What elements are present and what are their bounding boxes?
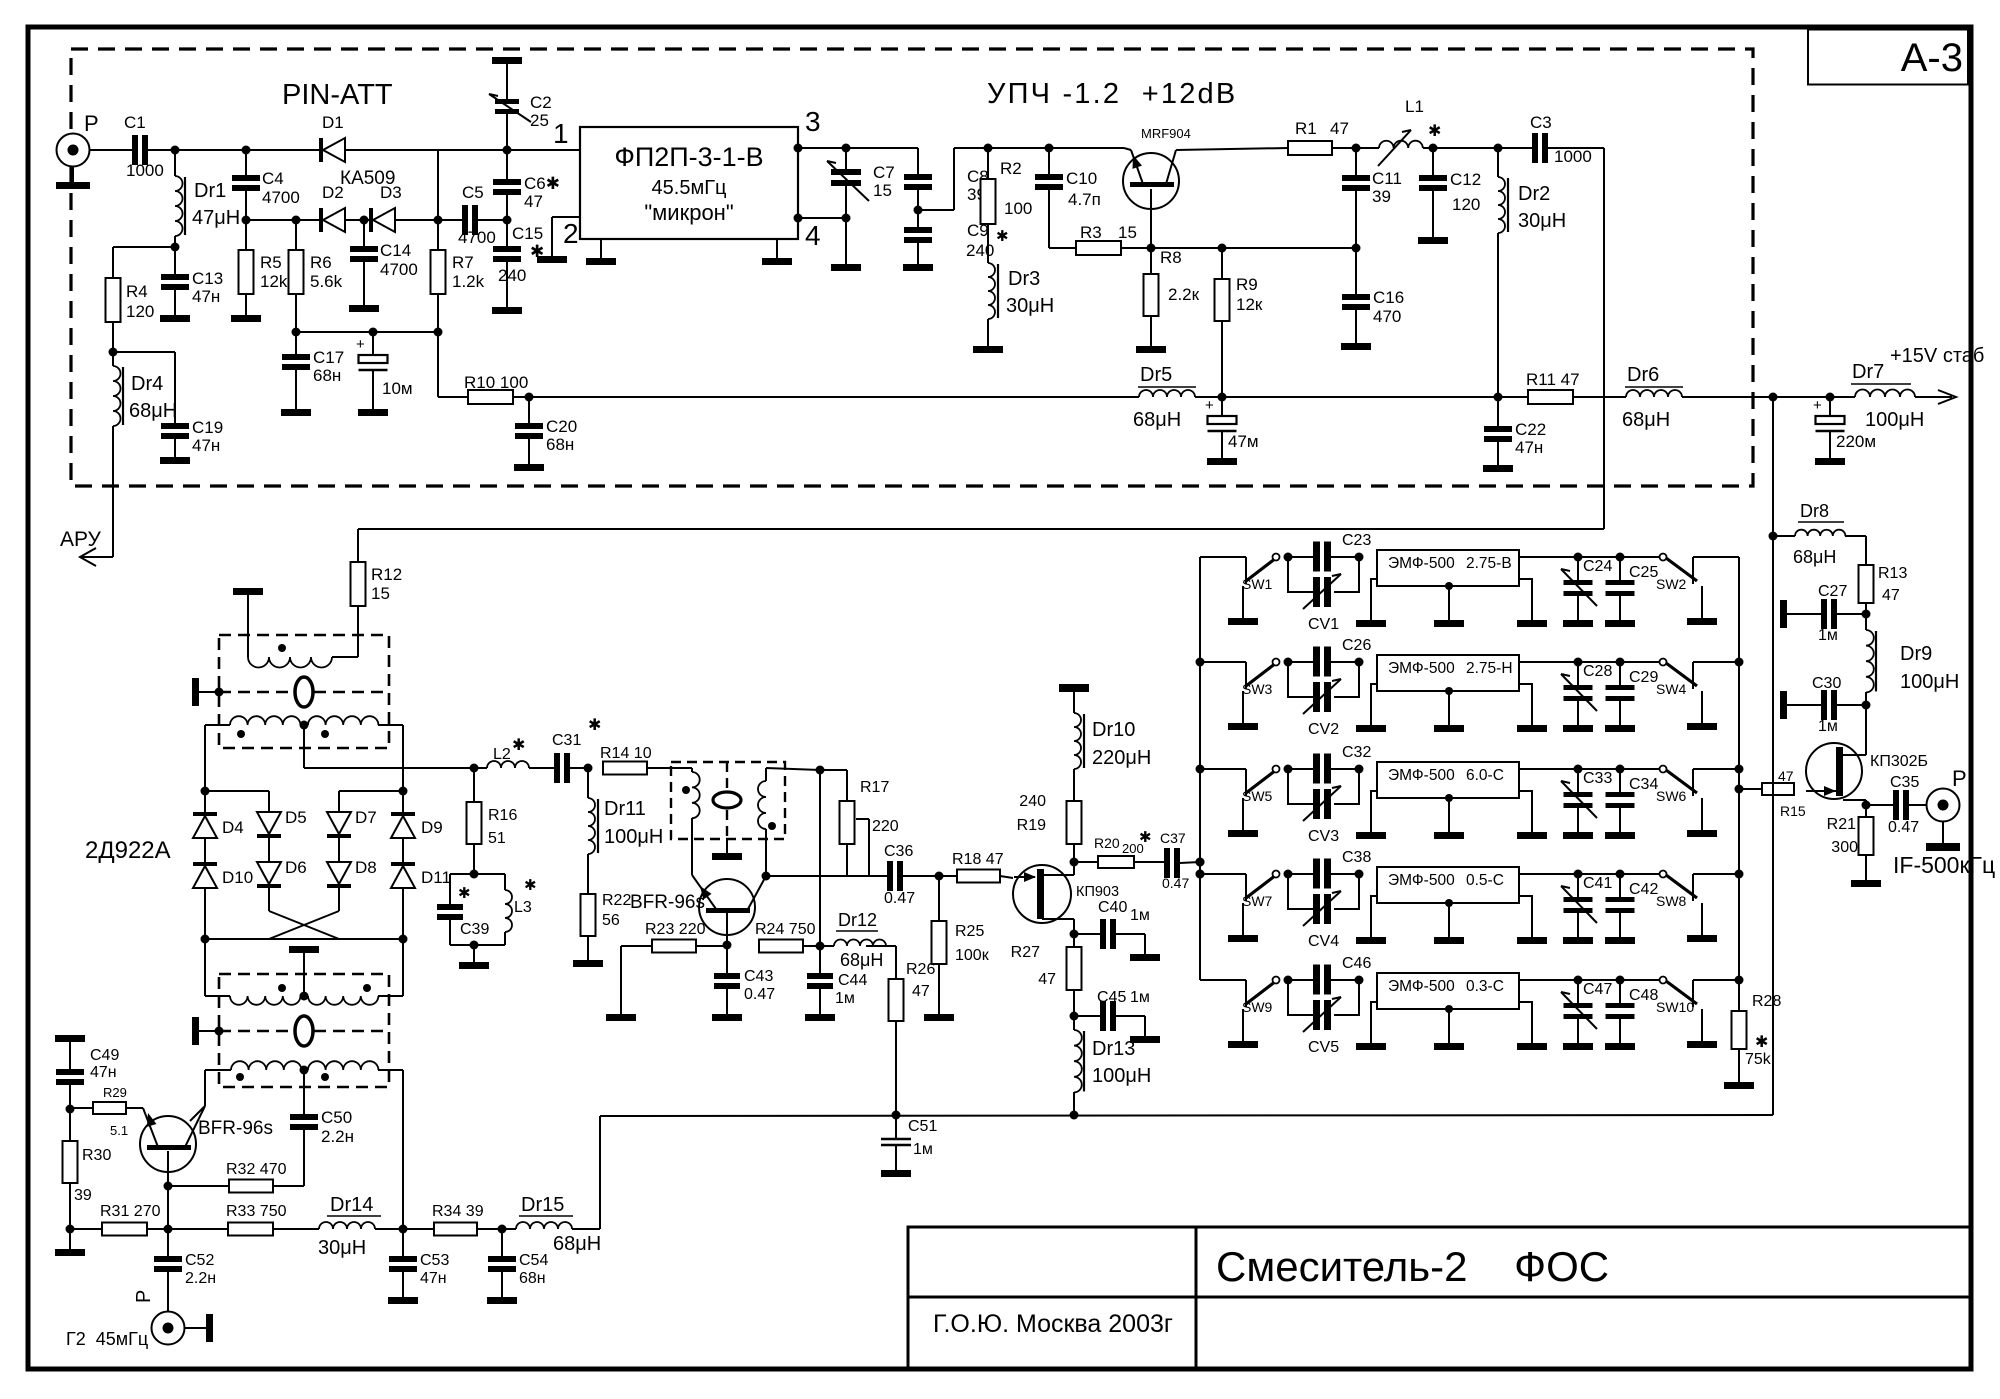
svg-text:68μH: 68μH [129,400,177,422]
svg-text:C43: C43 [744,968,773,985]
node [1284,870,1293,879]
svg-text:✱: ✱ [996,228,1009,245]
capacitor 10м electrolytic [372,332,374,355]
node [1494,144,1503,153]
choke Dr1 [174,150,176,176]
svg-text:C32: C32 [1342,744,1371,761]
svg-text:Dr5: Dr5 [1140,364,1172,386]
svg-text:0.3-С: 0.3-С [1466,978,1504,995]
svg-text:C45: C45 [1097,989,1126,1006]
capacitor C51 [892,1111,901,1120]
svg-text:5.6k: 5.6k [310,272,343,291]
power arrow out [1915,396,1952,398]
svg-text:L3: L3 [514,899,532,916]
ground [358,409,388,416]
svg-text:C10: C10 [1066,169,1097,188]
svg-text:C20: C20 [546,417,577,436]
capacitor C1 [132,135,138,165]
wire [1519,768,1578,770]
resistor R27 [1073,934,1075,947]
svg-text:Dr11: Dr11 [604,798,646,820]
svg-text:47н: 47н [192,287,220,306]
svg-text:КП302Б: КП302Б [1870,753,1928,770]
ground [473,945,475,962]
svg-text:C34: C34 [1629,776,1658,793]
input wire from C37 [1196,858,1205,867]
node [1429,144,1438,153]
svg-text:68μH: 68μH [1793,547,1836,567]
T1 secondary leads [205,724,230,726]
svg-text:C35: C35 [1890,774,1919,791]
capacitor C17 [295,332,297,354]
wire to R2 [918,209,954,211]
wire [1200,661,1233,663]
ground [174,439,176,457]
svg-text:1м: 1м [913,1141,933,1158]
supply bar above Dr10 [1059,684,1089,692]
svg-text:240: 240 [1019,793,1046,810]
svg-text:0.47: 0.47 [884,890,915,907]
svg-text:56: 56 [602,912,620,929]
capacitor C33 variable [1577,769,1579,792]
svg-text:Dr3: Dr3 [1008,268,1040,290]
diode D8 [327,862,351,884]
T2 lower winding [231,1061,301,1070]
ground [245,294,247,315]
svg-text:100к: 100к [955,947,990,964]
node [1769,532,1778,541]
svg-text:R11 47: R11 47 [1526,370,1580,389]
R23 ground [620,946,622,1014]
svg-text:220: 220 [872,818,899,835]
capacitor C38 [1288,873,1313,875]
node [470,764,479,773]
svg-text:C12: C12 [1450,170,1481,189]
switch SW1 [1233,556,1246,558]
svg-text:C16: C16 [1373,288,1404,307]
svg-text:D2: D2 [322,183,344,202]
svg-text:47: 47 [1882,587,1900,604]
svg-text:R9: R9 [1236,275,1258,294]
svg-text:C38: C38 [1342,849,1371,866]
capacitor C46 [1288,979,1313,981]
resistor R25 [938,876,940,921]
svg-text:R3: R3 [1080,223,1102,242]
svg-text:L2: L2 [493,746,511,763]
transformer T2 shield box [219,974,389,1087]
svg-text:C3: C3 [1530,113,1552,132]
capacitor C53 [402,1229,404,1256]
svg-text:C11: C11 [1372,169,1402,188]
capacitor CV5 variable [1288,980,1313,1015]
pin 2 [552,216,580,218]
node [503,146,512,155]
resistor R22 [581,894,596,936]
svg-text:C33: C33 [1583,770,1612,787]
wire [395,219,440,221]
svg-text:1м: 1м [1818,718,1838,735]
inductor L2 [474,767,487,769]
choke Dr5 [1139,390,1195,397]
filter grounds [1371,684,1377,725]
ground [69,1229,71,1249]
diode D1 [319,138,323,162]
wire [819,770,821,946]
svg-text:SW9: SW9 [1242,999,1273,1015]
capacitor C9 [917,210,919,227]
ground [506,262,508,307]
resistor R11 [1498,396,1528,398]
node [1196,658,1205,667]
svg-text:P: P [1952,766,1967,791]
svg-text:1м: 1м [835,990,855,1007]
svg-text:4700: 4700 [262,188,300,207]
capacitor C50 [303,1070,305,1114]
svg-text:C31: C31 [552,732,581,749]
transformer T3 box [671,762,785,839]
diode D2 [319,208,323,232]
svg-text:C24: C24 [1583,558,1612,575]
svg-text:ЭМФ-500: ЭМФ-500 [1388,978,1455,995]
svg-text:C52: C52 [185,1252,214,1269]
filter grounds [1371,896,1377,937]
capacitor C45 [1074,1015,1100,1017]
svg-text:47: 47 [1038,971,1056,988]
svg-text:ФП2П-3-1-В: ФП2П-3-1-В [614,142,763,172]
wire [988,147,1049,149]
svg-text:1м: 1м [1130,989,1150,1006]
svg-text:2: 2 [563,218,579,249]
ground above T1 [233,588,263,595]
pin 3 [794,144,803,153]
node [1284,976,1293,985]
svg-text:0.5-С: 0.5-С [1466,872,1504,889]
diode D6 [257,862,281,884]
diode D11 [391,862,415,866]
svg-text:Dr6: Dr6 [1627,364,1659,386]
ground [1865,855,1867,880]
node [1284,765,1293,774]
svg-text:75k: 75k [1745,1051,1772,1068]
filter grounds [1371,791,1377,832]
svg-text:R13: R13 [1878,565,1907,582]
capacitor C5 [462,205,468,235]
svg-text:А-3: А-3 [1901,36,1963,80]
capacitor CV1 variable [1288,557,1313,592]
T2 core ring [295,1016,313,1046]
svg-text:2.2н: 2.2н [185,1270,216,1287]
switch SW6 [1620,768,1663,770]
svg-text:ЭМФ-500: ЭМФ-500 [1388,555,1455,572]
wire [1195,396,1222,398]
svg-text:470: 470 [1373,307,1401,326]
switch SW9 [1233,979,1246,981]
svg-text:47: 47 [1778,768,1794,784]
svg-text:39: 39 [1372,187,1391,206]
capacitor C29 [1616,658,1625,667]
svg-text:51: 51 [488,830,506,847]
svg-text:5.1: 5.1 [110,1123,128,1138]
capacitor C35 [1866,804,1893,806]
switch SW4 [1620,661,1663,663]
sheet label box A-3 [1808,30,1968,85]
wire [339,790,403,792]
svg-text:R23 220: R23 220 [645,921,706,938]
T3 ground [726,839,728,853]
lower supply bus [600,1115,1773,1116]
svg-text:R4: R4 [126,282,148,301]
input node from C37 [1199,861,1201,863]
svg-text:C36: C36 [884,843,913,860]
power rail wire [529,396,1139,398]
capacitor C37 [1164,848,1170,878]
ground [174,290,176,315]
svg-text:100: 100 [1004,199,1032,218]
svg-text:C1: C1 [124,113,146,132]
dashed block boundary УПЧ [71,49,1753,486]
svg-text:IF-500кГц: IF-500кГц [1893,852,1995,878]
capacitor 220м electrolytic [1829,397,1831,416]
wire [766,768,820,770]
svg-text:C48: C48 [1629,987,1658,1004]
svg-text:L1: L1 [1405,97,1424,116]
svg-text:R2: R2 [1000,159,1022,178]
svg-text:C44: C44 [838,972,867,989]
svg-text:100μH: 100μH [604,826,663,848]
ground above T2 [289,946,319,953]
svg-text:R32 470: R32 470 [226,1161,287,1178]
capacitor C32 [1288,768,1313,770]
svg-text:C39: C39 [460,921,489,938]
capacitor C41 variable [1577,874,1579,897]
wire [1682,396,1855,398]
resistor R1 [1288,141,1332,155]
svg-text:C41: C41 [1583,875,1612,892]
svg-text:R22: R22 [602,892,631,909]
choke Dr11 [587,768,589,798]
svg-text:R29: R29 [103,1085,127,1100]
svg-text:C22: C22 [1515,420,1546,439]
svg-text:✱: ✱ [588,717,601,734]
svg-text:1.2k: 1.2k [452,272,485,291]
svg-text:C28: C28 [1583,663,1612,680]
svg-text:15: 15 [873,181,892,200]
transistor MRF904 [1123,153,1179,209]
inductor L1 variable [1356,147,1379,149]
svg-text:45.5мГц: 45.5мГц [652,177,727,199]
diode ring top nodes [201,787,210,796]
svg-text:R15: R15 [1780,803,1806,819]
wire [1200,556,1233,558]
svg-text:R18 47: R18 47 [952,851,1004,868]
wire IF feed across [358,528,1604,530]
svg-text:C4: C4 [262,169,284,188]
capacitor C4 [245,150,247,175]
T3 right winding [765,768,767,781]
svg-text:R24 750: R24 750 [755,921,816,938]
ground [1355,310,1357,343]
bias rail wire [292,328,301,337]
svg-text:240: 240 [966,241,994,260]
resistor R33 [168,1228,228,1230]
svg-text:C51: C51 [908,1118,937,1135]
capacitor C19 [113,351,175,353]
node [171,146,180,155]
choke Dr15 [516,1222,572,1229]
capacitor C34 [1616,765,1625,774]
filter right ground pin [776,239,778,258]
resistor R31 [70,1228,102,1230]
wire [1706,661,1739,663]
svg-text:R1: R1 [1295,119,1317,138]
svg-text:Dr13: Dr13 [1092,1038,1135,1060]
ground [1432,191,1434,237]
svg-text:3: 3 [805,106,821,137]
wire [205,790,269,792]
capacitor C11 [1355,148,1357,175]
svg-text:R25: R25 [955,923,984,940]
diode D7 [327,812,351,834]
capacitor C23 [1288,556,1313,558]
svg-text:D8: D8 [355,858,377,877]
svg-text:R16: R16 [488,807,517,824]
output wire [766,875,887,877]
right feed riser [1772,397,1774,1115]
svg-text:✱: ✱ [1139,829,1152,846]
svg-text:C15: C15 [512,224,543,243]
capacitor C7 variable [845,148,847,169]
capacitor C42 [1616,870,1625,879]
T1 secondary winding [230,716,300,725]
filter ЭМФ-500 2.75-В [1377,550,1519,586]
svg-text:C19: C19 [192,418,223,437]
wire main line [175,149,246,151]
node [914,206,923,215]
svg-text:C40: C40 [1098,899,1127,916]
svg-text:1м: 1м [1818,627,1838,644]
svg-text:C49: C49 [90,1047,119,1064]
svg-text:25: 25 [530,111,549,130]
svg-text:4700: 4700 [458,228,496,247]
resistor R17 [846,770,848,801]
svg-text:Dr12: Dr12 [838,910,877,930]
capacitor C40 [1074,933,1100,935]
power rail wire [438,396,468,398]
resistor R19 [1067,801,1082,844]
svg-text:CV1: CV1 [1308,616,1339,633]
svg-text:220м: 220м [1836,432,1876,451]
ground [845,218,847,264]
svg-text:C23: C23 [1342,532,1371,549]
ground [1221,431,1223,458]
svg-text:"микрон": "микрон" [644,200,733,225]
resistor R26 [895,946,897,979]
capacitor C28 variable [1577,662,1579,685]
capacitor CV4 variable [1288,874,1313,909]
resistor R7 [437,220,439,250]
filter ЭМФ-500 0.3-С [1377,973,1519,1009]
wire crossing R15 [1772,781,1774,797]
svg-text:R8: R8 [1160,248,1182,267]
svg-text:C47: C47 [1583,981,1612,998]
transistor Q2 BFR-96s [140,1116,196,1172]
ground [402,1272,404,1297]
svg-text:SW5: SW5 [1242,788,1273,804]
svg-text:Dr14: Dr14 [330,1194,373,1216]
svg-text:4: 4 [805,220,821,251]
capacitor C30 [1780,691,1787,719]
node [171,243,180,252]
svg-text:120: 120 [126,302,154,321]
svg-text:68μH: 68μH [1622,409,1670,431]
resistor R18 [939,875,957,877]
capacitor C6 [506,150,508,179]
switch SW5 [1233,768,1246,770]
choke Dr12 [834,940,886,946]
svg-text:2.2н: 2.2н [321,1127,354,1146]
pin 4 [794,214,803,223]
transistor Q5 КП903 FET [1013,865,1071,923]
svg-text:0.47: 0.47 [744,986,775,1003]
resistor R21 [1865,805,1867,817]
svg-text:240: 240 [498,266,526,285]
choke Dr13 [1073,1016,1075,1030]
switch SW8 [1620,873,1663,875]
resistor R6 [295,220,297,250]
filter bank right bus [1738,557,1740,980]
T2 shield terminal [192,1017,199,1045]
resistor R12 [357,529,359,562]
resistor R30 [69,1109,71,1141]
svg-text:C29: C29 [1629,669,1658,686]
resistor R2 [987,148,989,179]
svg-text:✱: ✱ [1755,1034,1768,1051]
choke Dr3 [988,263,995,319]
svg-text:SW2: SW2 [1656,576,1687,592]
resistor R29 [70,1107,93,1109]
capacitor C24 variable [1577,557,1579,580]
svg-text:D1: D1 [322,113,344,132]
ground above C49 [55,1035,85,1042]
svg-text:2.75-В: 2.75-В [1466,555,1512,572]
ground [917,243,919,264]
svg-text:15: 15 [371,584,390,603]
choke Dr7 [1855,390,1915,398]
svg-text:C14: C14 [380,241,411,260]
svg-text:АРУ: АРУ [60,528,102,551]
svg-text:100μH: 100μH [1900,671,1959,693]
ground [938,964,940,1014]
choke Dr14 [319,1222,375,1229]
wire [1519,556,1578,558]
capacitor CV3 variable [1288,769,1313,804]
svg-text:47н: 47н [90,1064,117,1081]
node [1284,553,1293,562]
svg-text:D4: D4 [222,818,244,837]
filter ground pin [600,239,602,258]
ground under P [1942,822,1944,843]
svg-text:ЭМФ-500: ЭМФ-500 [1388,660,1455,677]
title block [908,1227,1969,1368]
svg-text:68н: 68н [546,435,574,454]
wire [345,149,438,151]
svg-text:Dr7: Dr7 [1852,361,1884,383]
switch SW3 [1233,661,1246,663]
node [1196,765,1205,774]
capacitor C8 [917,148,919,174]
svg-text:47м: 47м [1228,432,1259,451]
svg-text:C30: C30 [1812,675,1841,692]
